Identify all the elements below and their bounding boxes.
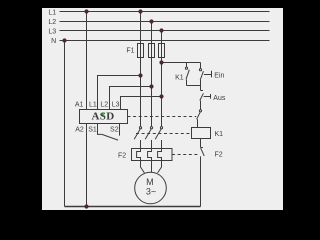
- svg-text:L3: L3: [48, 28, 56, 35]
- linkage K1 dashed: [136, 133, 192, 135]
- bus L1: [60, 11, 270, 13]
- device ASD box: [80, 110, 128, 124]
- svg-text:Aus: Aus: [213, 95, 226, 102]
- pushbutton Aus NC: [201, 90, 204, 92]
- LED green: [102, 113, 104, 115]
- wire A1 drop from L1: [86, 12, 88, 110]
- node L3/phase3: [159, 28, 163, 32]
- bus L2: [60, 21, 270, 23]
- terminal S1 with switch: [98, 124, 102, 135]
- svg-text:F2: F2: [215, 151, 223, 158]
- svg-text:K1: K1: [175, 75, 184, 82]
- contact K1 main pole1: [139, 127, 141, 129]
- svg-text:L1: L1: [89, 102, 97, 109]
- linkage ASD dashed: [128, 116, 197, 118]
- svg-text:L1: L1: [48, 9, 56, 16]
- wire join to Aus: [200, 86, 202, 91]
- contact K1 main pole2: [150, 127, 152, 129]
- wire bottom return: [65, 206, 201, 208]
- wire motor feed 3: [158, 161, 162, 173]
- node L1/phase1: [138, 9, 142, 13]
- wire tap L2 to ASD: [110, 87, 152, 110]
- wire Aus to ASD contact: [200, 101, 202, 110]
- svg-text:A2: A2: [75, 126, 84, 133]
- wire A2 drop: [86, 124, 88, 207]
- linkage F2 dashed: [172, 154, 198, 156]
- node control tap: [159, 60, 163, 64]
- terminal S2 stub: [119, 124, 121, 136]
- wire phase2 drop: [151, 22, 153, 127]
- contact ASD release: [199, 110, 201, 112]
- svg-text:A1: A1: [75, 102, 84, 109]
- overload element 3: [158, 149, 162, 161]
- bus L3: [60, 30, 270, 32]
- motor M1 circle: [135, 172, 167, 204]
- node tap phase3: [159, 94, 163, 98]
- wire parallel join: [187, 85, 201, 87]
- svg-text:K1: K1: [215, 131, 224, 138]
- svg-text:F1: F1: [126, 48, 134, 55]
- wire N drop: [64, 41, 66, 207]
- svg-text:N: N: [51, 38, 56, 45]
- svg-text:S1: S1: [88, 126, 97, 133]
- wire coil to F2 contact: [200, 139, 202, 148]
- overload element 1: [137, 149, 141, 161]
- node tap phase1: [138, 73, 142, 77]
- svg-text:ASD: ASD: [92, 110, 115, 122]
- fuse F1 pole 2: [149, 44, 155, 58]
- bus N: [60, 40, 270, 42]
- pushbutton Ein NO: [200, 63, 202, 69]
- wire motor feed 1: [141, 161, 145, 173]
- node N tap: [62, 38, 66, 42]
- svg-text:L3: L3: [112, 102, 120, 109]
- fuse F1 pole 3: [159, 44, 165, 58]
- wire tap L1 to ASD: [98, 76, 141, 110]
- wire control feed: [162, 62, 201, 64]
- overload element 2: [148, 149, 152, 161]
- wire tap L3 to ASD: [121, 97, 162, 110]
- contact K1 main pole3: [160, 127, 162, 129]
- fuse F1 pole 1: [138, 44, 144, 58]
- svg-text:F2: F2: [118, 152, 126, 159]
- wire motor feed 2: [151, 161, 153, 173]
- node A2 bottom: [84, 204, 88, 208]
- overload F2 box: [132, 149, 173, 161]
- panel background: [42, 8, 283, 210]
- svg-text:L2: L2: [48, 19, 56, 26]
- svg-text:Ein: Ein: [214, 72, 224, 79]
- wire phase1 drop: [140, 12, 142, 127]
- svg-text:3~: 3~: [146, 187, 156, 197]
- node L2/phase2: [149, 19, 153, 23]
- svg-text:S2: S2: [110, 126, 119, 133]
- node L1/A1: [84, 9, 88, 13]
- node tap phase2: [149, 84, 153, 88]
- contact F2 NC: [201, 147, 203, 149]
- wire phase3 drop: [161, 31, 163, 127]
- svg-text:L2: L2: [100, 102, 108, 109]
- coil K1: [192, 128, 211, 139]
- contact K1 aux NO: [186, 63, 188, 68]
